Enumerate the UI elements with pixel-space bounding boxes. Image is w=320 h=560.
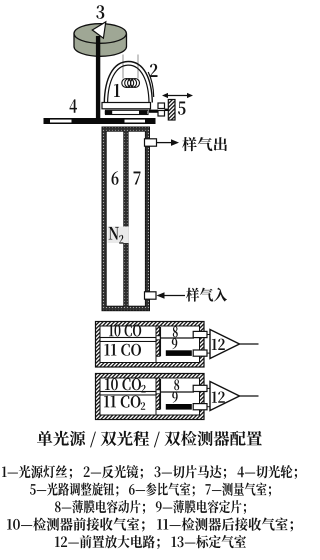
chopper wheel bar (4) — [44, 118, 156, 124]
filament coil (1) — [122, 79, 140, 88]
chamber 10 (front receiving cell) — [100, 378, 156, 392]
label 12 (det1 preamp) — [212, 339, 225, 350]
label 5 (adjust knob) — [178, 102, 186, 115]
legend line 2 — [30, 483, 271, 497]
slotted plate under lamp — [106, 110, 149, 114]
sample gas outlet arrow — [157, 142, 172, 144]
label 3 (chopper motor) — [96, 5, 104, 19]
gas cell tube walls (stippled) — [102, 127, 150, 311]
feedthrough terminal bottom — [193, 350, 207, 356]
chopper slot right — [125, 120, 146, 123]
connector square bottom — [158, 111, 165, 117]
chopper motor ring top ellipse — [74, 24, 126, 44]
middle wall upper segment — [156, 378, 160, 390]
membrane moving plate (8) thin line — [159, 379, 161, 410]
label 12 (det2 preamp) — [212, 391, 225, 402]
legend line 5 — [55, 535, 246, 549]
slotted plate left cap — [105, 111, 112, 115]
feedthrough terminal top — [193, 385, 207, 391]
sample gas inlet stub — [145, 292, 157, 299]
label 4 (chopper wheel) — [70, 99, 78, 112]
fixed plate (9) thick bar — [166, 404, 192, 410]
rod from base to adjuster — [149, 110, 158, 113]
wire terminal bottom to amp — [207, 406, 211, 408]
wire terminal top to amp — [207, 387, 211, 389]
caption — [37, 431, 262, 448]
detector box det2 interior — [100, 378, 200, 415]
lamp base plate — [102, 103, 151, 109]
lamp lead wire right — [137, 55, 139, 79]
text 11 CO2 (rear chamber det2) — [104, 396, 140, 408]
reference chamber 6 interior — [106, 131, 124, 306]
N2 label patch — [108, 227, 129, 244]
preamp output line — [240, 395, 259, 397]
label 8 (det2 moving plate) — [174, 379, 179, 390]
wire from membrane to terminal — [161, 337, 194, 339]
wire terminal top to amp — [207, 334, 211, 336]
chopper slot left — [50, 120, 72, 123]
preamp output line — [240, 343, 259, 345]
fixed plate (9) thick bar — [166, 350, 192, 356]
label 2 (reflector mirror) — [150, 64, 158, 77]
detector box det1 outer hatched wall — [96, 322, 205, 368]
label 7 (measurement cell) — [133, 172, 140, 185]
label 1 (lamp filament) — [114, 84, 120, 97]
feedthrough terminal bottom — [193, 404, 207, 410]
chamber separator — [100, 392, 156, 396]
wire terminal bottom to amp — [207, 352, 211, 354]
detector box det1 interior — [100, 326, 200, 363]
lamp lead wire left — [122, 55, 124, 79]
text sample-gas-in — [186, 288, 227, 302]
legend line 4 — [7, 518, 293, 532]
label 9 (det1 fixed plate) — [172, 338, 178, 349]
chopper motor ring (3) side band — [74, 34, 127, 57]
reflector dome inner arc — [108, 65, 149, 102]
membrane moving plate (8) thin line — [159, 327, 161, 356]
stub to knob — [165, 109, 169, 111]
label 8 (det1 moving plate) — [173, 326, 178, 337]
text 11 CO (rear chamber det1) — [104, 344, 140, 356]
middle wall lower segment — [156, 340, 160, 357]
detector box det2 outer hatched wall — [96, 374, 205, 420]
chamber 11 (rear receiving cell) — [100, 395, 156, 415]
middle wall lower segment — [156, 394, 160, 410]
text 10 CO2 (front chamber det2) — [105, 378, 141, 390]
slotted plate right cap — [139, 111, 147, 115]
adjustment knob (5) hatched — [168, 100, 175, 121]
legend line 3 — [55, 500, 246, 514]
chamber separator — [100, 338, 156, 342]
text 10 CO (front chamber det1) — [109, 325, 141, 337]
wire from membrane to terminal — [161, 391, 194, 393]
motor shaft — [96, 36, 100, 124]
measurement chamber 7 interior — [128, 131, 145, 306]
label 9 (det2 fixed plate) — [172, 392, 178, 403]
double-headed adjustment arrow — [165, 95, 190, 97]
reflector lip arc right — [148, 72, 154, 97]
sample gas outlet stub — [145, 139, 157, 146]
feedthrough terminal top — [193, 331, 207, 337]
sample gas inlet arrow — [163, 295, 185, 297]
chamber 11 (rear receiving cell) — [100, 342, 156, 363]
chamber 10 (front receiving cell) — [100, 326, 156, 338]
middle wall upper segment — [156, 326, 160, 336]
legend line 1 — [2, 465, 297, 479]
connector square top — [158, 103, 165, 109]
preamp triangle (12) — [210, 382, 240, 411]
text N2 in reference cell — [109, 227, 119, 240]
text sample-gas-out — [182, 137, 227, 151]
reflector dome outer arc (2) — [104, 62, 152, 103]
preamp triangle (12) — [210, 330, 240, 359]
label 6 (reference cell) — [112, 171, 119, 185]
rotation arrowhead on ring — [92, 22, 106, 38]
